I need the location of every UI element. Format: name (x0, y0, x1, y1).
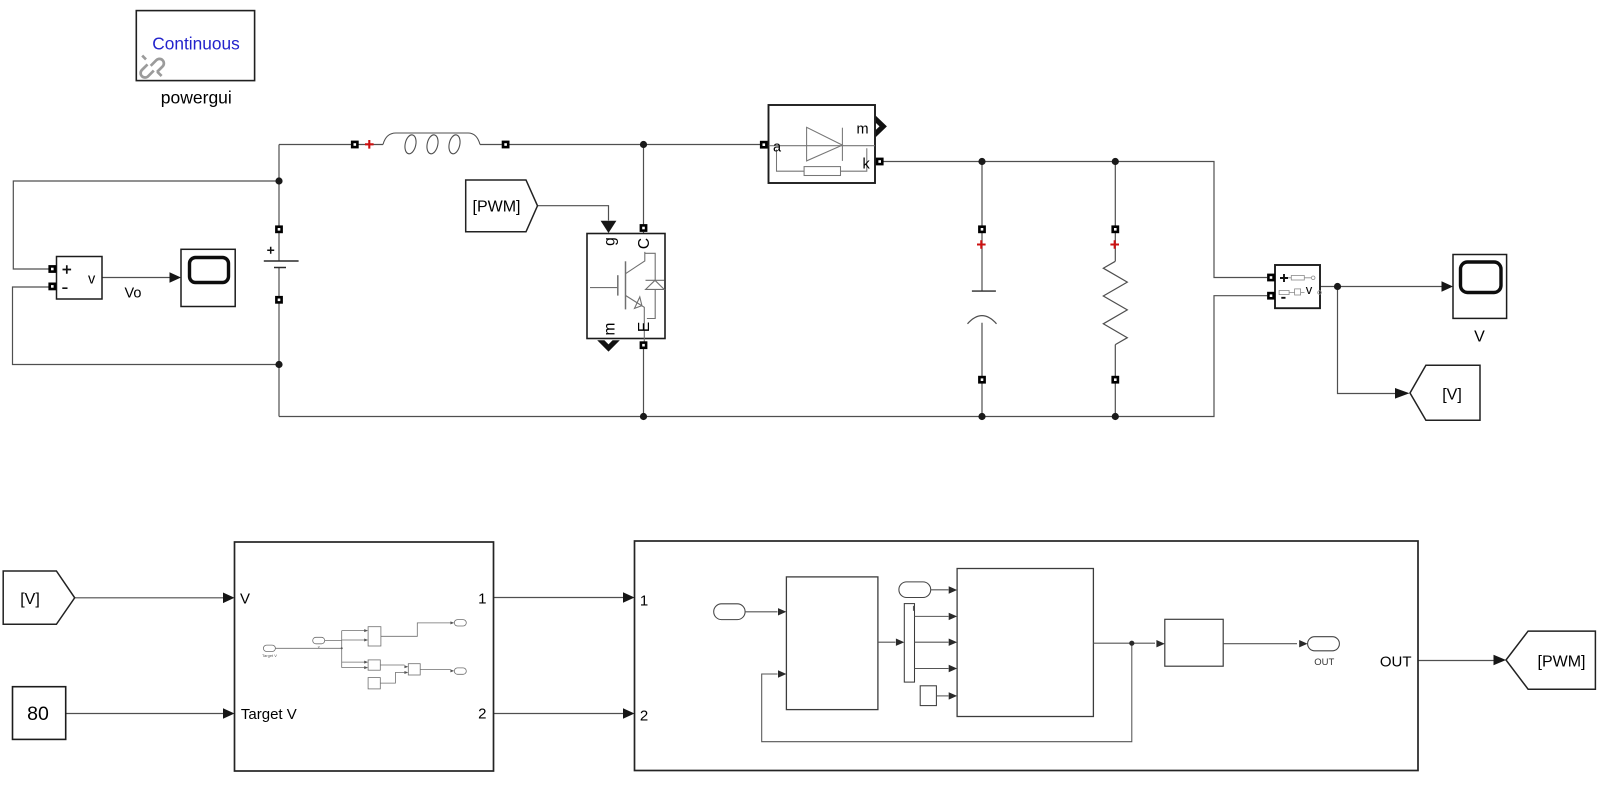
svg-text:Target V: Target V (241, 706, 297, 723)
svg-text:2: 2 (478, 706, 486, 723)
svg-text:2: 2 (640, 708, 648, 725)
svg-text:1: 1 (478, 591, 486, 608)
svg-text:powergui: powergui (161, 88, 232, 108)
svg-text:Vo: Vo (125, 286, 142, 302)
svg-text:v: v (1306, 282, 1313, 297)
svg-text:80: 80 (27, 703, 49, 725)
svg-text:Target V: Target V (262, 653, 277, 658)
svg-text:E: E (636, 322, 653, 332)
svg-text:OUT: OUT (1380, 654, 1412, 671)
svg-text:g: g (602, 237, 619, 246)
svg-text:1: 1 (640, 593, 648, 610)
svg-text:V: V (240, 591, 250, 608)
svg-text:[PWM]: [PWM] (1538, 654, 1586, 671)
svg-text:[V]: [V] (1442, 387, 1462, 404)
svg-text:[V]: [V] (20, 591, 40, 608)
svg-text:a: a (773, 140, 782, 156)
svg-text:v: v (318, 644, 320, 649)
svg-text:k: k (863, 157, 871, 173)
svg-text:C: C (636, 238, 653, 249)
svg-text:m: m (602, 323, 619, 336)
svg-text:V: V (1474, 329, 1485, 346)
svg-text:v: v (88, 272, 96, 288)
svg-text:Continuous: Continuous (152, 34, 240, 54)
svg-text:OUT: OUT (1314, 657, 1334, 668)
svg-text:[PWM]: [PWM] (473, 199, 521, 216)
svg-text:m: m (857, 122, 869, 138)
